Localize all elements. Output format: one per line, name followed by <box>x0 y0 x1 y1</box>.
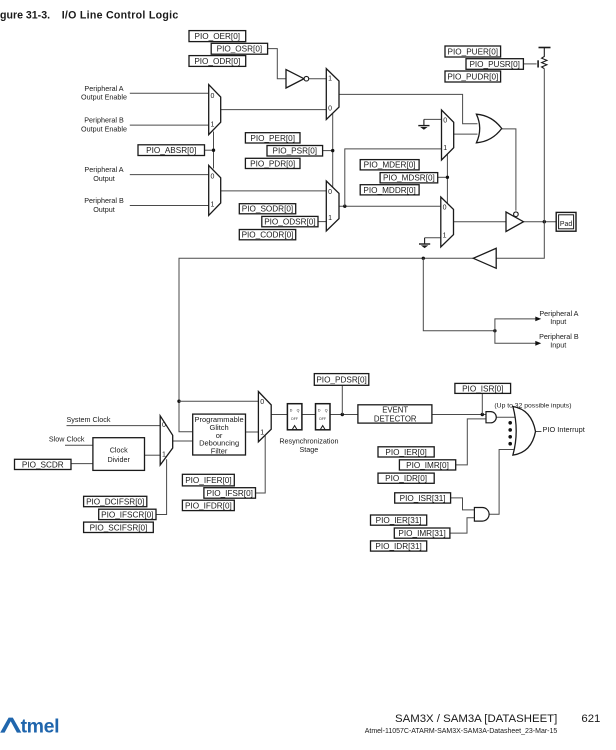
svg-text:PIO_IDR[31]: PIO_IDR[31] <box>375 542 421 551</box>
wire mux U6 out to driver <box>454 221 507 223</box>
svg-text:PIO_IER[31]: PIO_IER[31] <box>376 516 422 525</box>
wire data out of mux U3 <box>339 205 441 207</box>
block event detector <box>358 405 432 423</box>
wire to peripheral inputs <box>423 258 495 331</box>
block clock divider <box>93 438 145 471</box>
svg-text:PIO_IFDR[0]: PIO_IFDR[0] <box>185 501 232 510</box>
svg-text:Q: Q <box>325 409 328 413</box>
wire PIO_MDSR to select <box>438 176 448 178</box>
svg-text:PIO_IER[0]: PIO_IER[0] <box>385 448 426 457</box>
svg-text:PIO_ODSR[0]: PIO_ODSR[0] <box>264 218 315 227</box>
register PIO_IFSCR[0] <box>99 509 156 519</box>
node peripheral input branch <box>493 329 496 332</box>
svg-text:0: 0 <box>211 93 215 100</box>
wire peripheral B output enable <box>130 124 209 126</box>
wire PIO_PDSR tap <box>341 385 343 414</box>
inverter U11 <box>286 70 309 89</box>
svg-text:Clock: Clock <box>110 445 128 454</box>
mux U7 filter bypass select <box>258 392 271 442</box>
svg-text:PIO_IDR[0]: PIO_IDR[0] <box>385 474 427 483</box>
node pad junction <box>543 220 546 223</box>
mux U3 data source select <box>326 181 339 231</box>
wire PIO_SCDR to clock divider <box>71 463 93 465</box>
svg-text:Peripheral B: Peripheral B <box>84 116 124 125</box>
svg-text:Output Enable: Output Enable <box>81 124 127 133</box>
wire peripheral A output enable <box>130 92 209 94</box>
wire system clock <box>67 425 161 427</box>
svg-text:PIO_ISR[31]: PIO_ISR[31] <box>400 494 446 503</box>
svg-text:0: 0 <box>162 422 166 429</box>
mux U8 filter clock select <box>160 416 173 465</box>
wire data to mux U5 input 1 <box>345 149 442 206</box>
register PIO_IER[0] <box>378 447 434 457</box>
svg-text:PIO_IFER[0]: PIO_IFER[0] <box>185 476 231 485</box>
svg-text:Pad: Pad <box>560 221 573 228</box>
svg-text:Input: Input <box>550 317 566 326</box>
svg-text:Output: Output <box>93 205 115 214</box>
svg-text:1: 1 <box>443 145 447 152</box>
svg-text:DFF: DFF <box>291 417 298 421</box>
svg-text:PIO_SCDR: PIO_SCDR <box>22 460 64 469</box>
svg-text:Resynchronization: Resynchronization <box>279 436 338 445</box>
pull-up control tick <box>537 60 539 67</box>
wire peripheral B input <box>495 331 537 344</box>
svg-text:EVENT: EVENT <box>382 406 408 415</box>
svg-text:0: 0 <box>260 399 264 406</box>
wire mux U2 select PIO_PSR <box>332 114 334 188</box>
mux U4 output select <box>209 165 221 215</box>
svg-text:1: 1 <box>443 232 447 239</box>
node ABSR select junction <box>212 149 215 152</box>
wire PIO_ABSR to select <box>205 149 214 151</box>
register PIO_PDR[0] <box>245 158 300 168</box>
register PIO_MDER[0] <box>360 160 419 170</box>
wire clock divider to mux U8 input 1 <box>145 454 161 456</box>
svg-text:Input: Input <box>550 341 566 350</box>
wire PIO_IMR31 to AND gate U10 <box>450 518 475 533</box>
svg-text:1: 1 <box>260 430 264 437</box>
svg-text:PIO_SCIFSR[0]: PIO_SCIFSR[0] <box>90 523 148 532</box>
svg-text:PIO Interrupt: PIO Interrupt <box>543 425 585 434</box>
wire peripheral A input <box>495 319 537 331</box>
svg-text:DETECTOR: DETECTOR <box>374 414 417 423</box>
wire PIO_ODSR to mux U3 input 1 <box>318 221 326 223</box>
svg-text:Peripheral B: Peripheral B <box>84 196 124 205</box>
svg-text:PIO_MDER[0]: PIO_MDER[0] <box>364 161 416 170</box>
svg-text:PIO_OER[0]: PIO_OER[0] <box>195 32 241 41</box>
wire mux U8 out to filter clock <box>173 440 193 442</box>
svg-text:PIO_PUDR[0]: PIO_PUDR[0] <box>447 73 498 82</box>
flip-flop DFF2 resynchronization <box>316 404 331 430</box>
svg-text:621: 621 <box>581 713 600 725</box>
register PIO_SODR[0] <box>239 204 295 214</box>
register PIO_OSR[0] <box>211 43 267 54</box>
svg-text:0: 0 <box>443 117 447 124</box>
node ellipsis dot 1 <box>508 421 512 425</box>
wire ground to mux U5 input 0 <box>424 118 442 120</box>
node ellipsis dot 4 <box>508 442 512 446</box>
supply rail bar <box>539 47 551 49</box>
wire input to glitch filter column <box>179 258 473 432</box>
register PIO_ABSR[0] <box>138 145 205 156</box>
ground G1 <box>418 119 429 129</box>
svg-text:PIO_PDR[0]: PIO_PDR[0] <box>250 159 295 168</box>
tri-state driver U13 pad output <box>506 212 524 232</box>
node ISR tap <box>481 413 484 416</box>
wire ground to mux U6 input 1 <box>425 237 441 239</box>
wire pad to input buffer <box>496 222 544 259</box>
wire inverter to mux U2 input 1 <box>309 78 327 80</box>
wire unfiltered input to mux U7 input 0 <box>179 400 258 402</box>
svg-text:PIO_IMR[0]: PIO_IMR[0] <box>406 461 449 470</box>
register PIO_SCDR <box>15 459 72 469</box>
register PIO_IFER[0] <box>182 474 234 486</box>
wire PIO_IFSR to mux U7 select <box>256 436 266 494</box>
register PIO_IDR[31] <box>371 541 427 551</box>
register PIO_SCIFSR[0] <box>84 522 154 532</box>
or-gate U12 driver enable <box>476 114 501 143</box>
svg-text:PIO_CODR[0]: PIO_CODR[0] <box>242 231 294 240</box>
resistor R1 pull-up <box>542 48 547 69</box>
wire PIO_IFSCR to mux U8 select <box>156 459 167 514</box>
svg-text:1: 1 <box>211 201 215 208</box>
svg-text:gure 31-3.: gure 31-3. <box>0 10 50 22</box>
register PIO_ODSR[0] <box>262 216 318 226</box>
register PIO_MDSR[0] <box>380 173 438 183</box>
svg-text:PIO_PDSR[0]: PIO_PDSR[0] <box>316 375 367 384</box>
node ellipsis dot 3 <box>508 435 512 439</box>
svg-text:PIO_IFSR[0]: PIO_IFSR[0] <box>206 489 252 498</box>
register PIO_ISR[31] <box>395 493 451 503</box>
register PIO_PUSR[0] <box>466 59 523 70</box>
svg-text:0: 0 <box>211 174 215 181</box>
svg-text:System Clock: System Clock <box>67 415 111 424</box>
register PIO_CODR[0] <box>239 230 295 240</box>
svg-text:DFF: DFF <box>319 417 326 421</box>
register PIO_IMR[0] <box>399 460 455 470</box>
wire PIO_PUSR to pull-up switch <box>523 63 536 65</box>
wire slow clock <box>65 444 93 446</box>
wire driver out to pad <box>524 221 557 223</box>
mux U5 multidrive enable gate <box>442 110 454 160</box>
or-gate U9 PIO interrupt <box>513 407 536 456</box>
svg-text:Peripheral B: Peripheral B <box>539 332 579 341</box>
logo Atmel <box>0 716 59 738</box>
register PIO_PDSR[0] <box>314 374 369 386</box>
svg-text:1: 1 <box>162 452 166 459</box>
wire DFF1 to DFF2 <box>302 414 316 416</box>
wire peripheral A output <box>130 174 209 176</box>
node ellipsis dot 2 <box>508 428 512 432</box>
svg-text:0: 0 <box>328 189 332 196</box>
register PIO_IFDR[0] <box>182 500 234 510</box>
register PIO_IER[31] <box>371 515 427 525</box>
svg-text:(Up to 32 possible inputs): (Up to 32 possible inputs) <box>494 402 571 409</box>
wire PIO interrupt out <box>536 431 542 433</box>
node input branch to peripherals <box>422 257 425 260</box>
node PSR select junction <box>331 149 334 152</box>
svg-text:PIO_MDSR[0]: PIO_MDSR[0] <box>383 174 435 183</box>
wire output enable to OR gate <box>339 94 478 123</box>
block glitch filter <box>193 414 246 455</box>
register PIO_MDDR[0] <box>360 185 419 195</box>
wire AND gate U10 to OR gate U9 <box>489 450 513 515</box>
svg-text:PIO_OSR[0]: PIO_OSR[0] <box>217 45 263 54</box>
wire PIO_PSR to select <box>323 150 333 152</box>
register PIO_PUDR[0] <box>445 71 501 82</box>
svg-text:Slow Clock: Slow Clock <box>49 435 85 444</box>
flip-flop DFF1 resynchronization <box>287 404 302 430</box>
wire OR gate to driver enable <box>502 129 516 211</box>
svg-text:Stage: Stage <box>300 445 319 454</box>
register PIO_ISR[0] <box>455 383 511 393</box>
svg-text:Filter: Filter <box>211 447 228 456</box>
wire PIO_IMR0 to AND gate <box>456 419 486 465</box>
wire DFF2 to event detector <box>330 414 358 416</box>
svg-text:PIO_PER[0]: PIO_PER[0] <box>250 134 295 143</box>
register PIO_PUER[0] <box>445 46 501 57</box>
svg-text:Output Enable: Output Enable <box>81 93 127 102</box>
svg-text:D: D <box>318 409 321 413</box>
register PIO_IFSR[0] <box>204 488 256 499</box>
ground G2 <box>419 238 430 248</box>
wire mux U1 out to mux U2 input 0 <box>221 109 327 111</box>
wire AND gate to OR gate U9 <box>496 416 514 418</box>
svg-text:Peripheral A: Peripheral A <box>84 165 123 174</box>
svg-text:Q: Q <box>297 409 300 413</box>
wire event detector to AND gate <box>432 414 486 416</box>
wire PIO_ISR tap <box>481 393 483 414</box>
and-gate U15 interrupt 0 <box>486 412 496 423</box>
svg-text:PIO_ISR[0]: PIO_ISR[0] <box>462 384 503 393</box>
svg-text:0: 0 <box>443 205 447 212</box>
mux U1 output enable select <box>209 85 221 135</box>
svg-text:PIO_MDDR[0]: PIO_MDDR[0] <box>363 186 415 195</box>
svg-text:PIO_DCIFSR[0]: PIO_DCIFSR[0] <box>86 498 144 507</box>
wire mux U4 out to mux U3 input 0 <box>221 190 327 192</box>
arrow peripheral A input <box>535 317 541 322</box>
wire PIO_OSR to inverter <box>268 49 286 79</box>
register PIO_IMR[31] <box>394 528 450 538</box>
arrow peripheral B input <box>535 341 541 346</box>
svg-text:PIO_SODR[0]: PIO_SODR[0] <box>242 205 293 214</box>
svg-text:PIO_IMR[31]: PIO_IMR[31] <box>398 529 445 538</box>
mux U6 multidrive data gate <box>441 197 454 247</box>
svg-text:SAM3X / SAM3A [DATASHEET]: SAM3X / SAM3A [DATASHEET] <box>395 713 557 725</box>
mux U2 enable source select <box>326 69 339 120</box>
svg-text:PIO_ODR[0]: PIO_ODR[0] <box>194 57 240 66</box>
and-gate U10 interrupt 31 <box>474 508 489 522</box>
svg-text:PIO_IFSCR[0]: PIO_IFSCR[0] <box>101 510 153 519</box>
node PDSR tap <box>341 413 344 416</box>
wire multidrive select PIO_MDSR <box>446 155 448 204</box>
svg-text:tmel: tmel <box>21 716 60 738</box>
wire filter out to mux U7 input 1 <box>246 431 259 433</box>
node data junction <box>343 205 346 208</box>
wire pad rail <box>543 69 545 222</box>
svg-text:0: 0 <box>328 106 332 113</box>
register PIO_IDR[0] <box>378 473 434 483</box>
pad terminal <box>556 212 576 231</box>
register PIO_OER[0] <box>189 31 246 42</box>
buffer U14 pad input <box>473 248 496 268</box>
node input branch to mux U7 <box>177 400 180 403</box>
svg-text:D: D <box>290 409 293 413</box>
register PIO_PER[0] <box>245 133 300 143</box>
wire PIO_ISR31 to AND gate U10 <box>451 498 475 510</box>
svg-text:Divider: Divider <box>108 455 131 464</box>
register PIO_PSR[0] <box>267 146 323 157</box>
register PIO_ODR[0] <box>189 56 246 67</box>
svg-text:1: 1 <box>328 76 332 83</box>
svg-text:PIO_PSR[0]: PIO_PSR[0] <box>272 147 317 156</box>
wire mux select PIO_ABSR <box>213 132 215 169</box>
wire mux U7 out to DFF1 <box>271 414 287 416</box>
node MDSR select junction <box>446 176 449 179</box>
svg-text:I/O Line Control Logic: I/O Line Control Logic <box>62 10 179 22</box>
svg-text:1: 1 <box>211 121 215 128</box>
svg-text:Output: Output <box>93 174 115 183</box>
svg-text:PIO_PUER[0]: PIO_PUER[0] <box>448 48 499 57</box>
svg-text:Peripheral A: Peripheral A <box>84 84 123 93</box>
wire peripheral B output <box>130 205 209 207</box>
svg-text:1: 1 <box>328 215 332 222</box>
svg-text:Atmel-11057C-ATARM-SAM3X-SAM3A: Atmel-11057C-ATARM-SAM3X-SAM3A-Datasheet… <box>365 728 558 735</box>
svg-text:PIO_PUSR[0]: PIO_PUSR[0] <box>469 60 520 69</box>
wire mux U5 out to OR gate <box>454 133 478 135</box>
register PIO_DCIFSR[0] <box>84 496 147 506</box>
svg-text:PIO_ABSR[0]: PIO_ABSR[0] <box>146 146 196 155</box>
